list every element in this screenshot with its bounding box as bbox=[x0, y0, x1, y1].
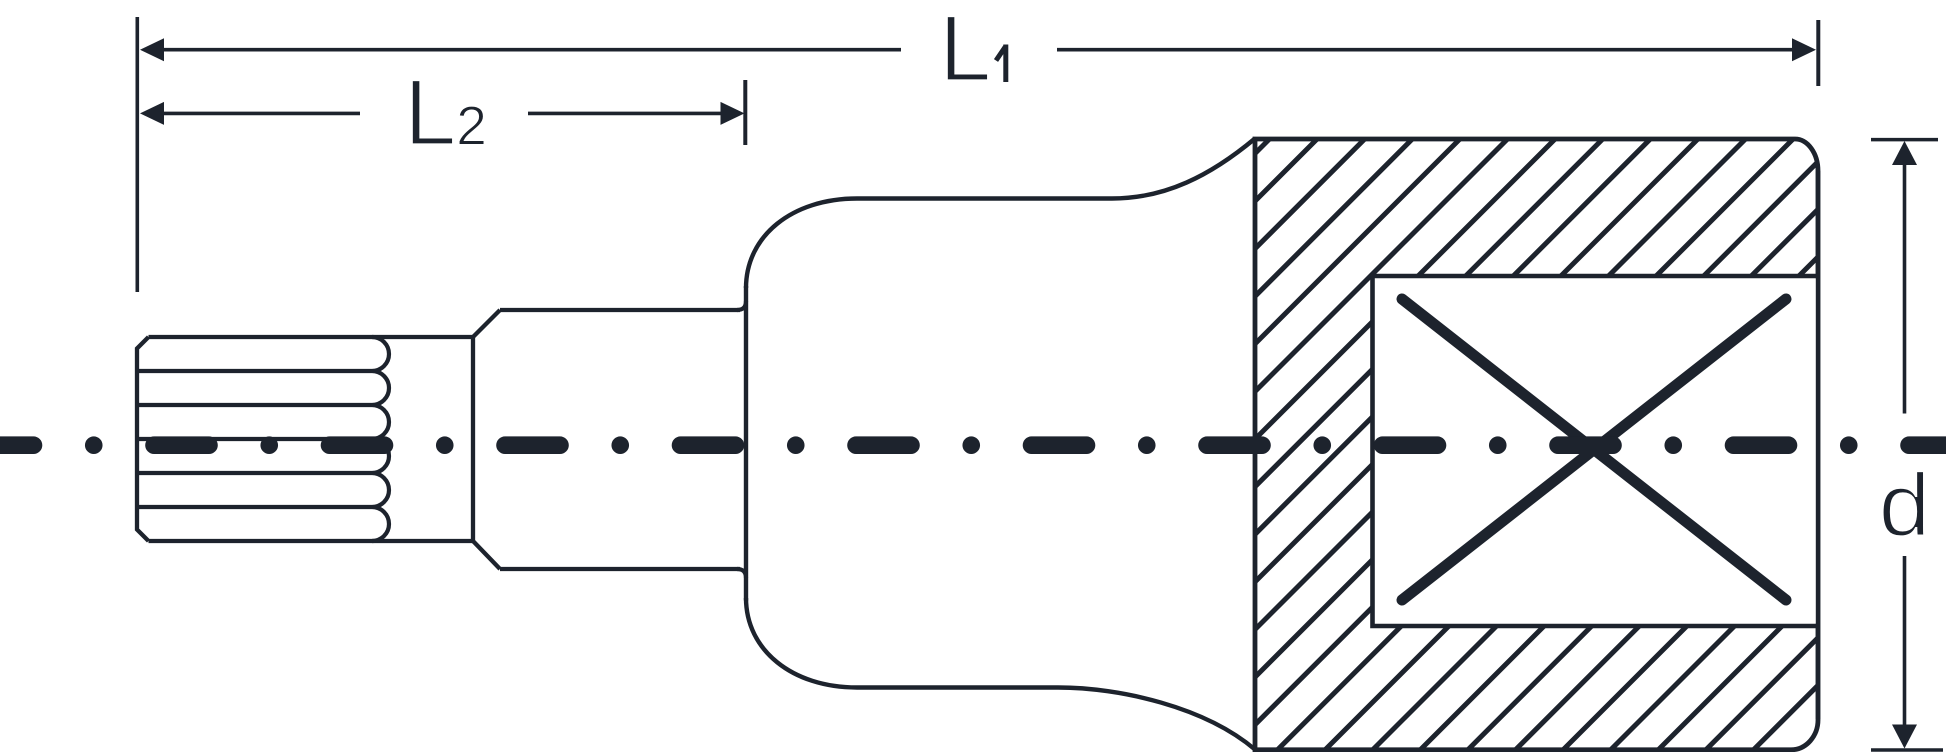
spline bit tip outline bbox=[137, 337, 473, 541]
L1 right arrowhead bbox=[1792, 38, 1816, 61]
hatching (section lines of socket body) bbox=[609, 0, 1946, 752]
shaft top line bbox=[500, 308, 740, 312]
socket front face line bbox=[744, 286, 748, 601]
socket nose / collar outline (bottom) bbox=[746, 598, 1255, 750]
shaft bottom line bbox=[500, 567, 740, 571]
L1 dimension: left extension line bbox=[136, 17, 140, 292]
square drive cavity (white opening) bbox=[1375, 278, 1818, 623]
block right edge restored over cavity bbox=[1816, 171, 1820, 719]
d dimension line lower segment bbox=[1903, 556, 1907, 727]
svg-text:L2: L2 bbox=[404, 60, 487, 165]
center line (dash-dot axis) bbox=[0, 436, 1946, 454]
L2 right arrowhead bbox=[721, 102, 745, 125]
socket nose / collar outline (top) bbox=[746, 139, 1255, 289]
shoulder chamfer bottom bbox=[473, 541, 500, 569]
L1 right tick bbox=[1816, 20, 1820, 86]
L1 dimension line right segment bbox=[1057, 48, 1794, 52]
d dimension line upper segment bbox=[1903, 163, 1907, 414]
socket body block outline bbox=[1255, 139, 1818, 750]
L1 subscript digit 1 bbox=[996, 45, 1006, 83]
shoulder chamfer top bbox=[473, 310, 500, 337]
L2 dimension line right segment bbox=[528, 112, 722, 116]
X cross in square drive cavity bbox=[1402, 299, 1786, 600]
cavity edges bbox=[1373, 276, 1819, 626]
d top arrowhead (pointing up) bbox=[1892, 141, 1917, 165]
svg-text:L: L bbox=[939, 0, 991, 101]
spline ridge end caps bbox=[372, 337, 389, 541]
d dimension top tick bbox=[1871, 138, 1938, 142]
d bottom arrowhead (pointing down) bbox=[1892, 725, 1917, 749]
svg-text:d: d bbox=[1879, 456, 1931, 555]
d dimension bottom tick bbox=[1871, 748, 1943, 752]
L2 left arrowhead bbox=[140, 102, 164, 125]
L1 left arrowhead bbox=[140, 38, 164, 61]
L1 dimension line left segment bbox=[162, 48, 901, 52]
shoulder vertical bbox=[471, 337, 475, 541]
fillet shaft-to-face top bbox=[737, 301, 746, 310]
L2 dimension line left segment bbox=[162, 112, 360, 116]
L2 right tick bbox=[743, 80, 747, 145]
fillet shaft-to-face bottom bbox=[737, 569, 746, 578]
spline ridge lines bbox=[137, 371, 372, 507]
